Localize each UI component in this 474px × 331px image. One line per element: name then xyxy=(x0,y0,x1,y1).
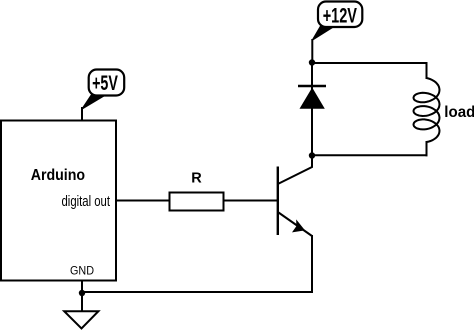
resistor R xyxy=(170,193,224,211)
wire right branch bottom xyxy=(426,141,428,156)
ground symbol xyxy=(64,311,98,328)
inductor L1 load xyxy=(414,78,440,142)
+5V supply flag xyxy=(82,70,125,110)
+12V supply flag xyxy=(312,2,362,41)
svg-text:R: R xyxy=(191,170,202,186)
svg-text:GND: GND xyxy=(70,266,94,278)
transistor Q1 xyxy=(278,156,312,237)
collector lead xyxy=(278,156,312,185)
base bar xyxy=(277,167,279,236)
wire +5V to Arduino xyxy=(81,107,83,121)
emitter arrow xyxy=(292,219,305,232)
node collector junction xyxy=(309,152,315,158)
wire resistor to base xyxy=(224,200,279,202)
wire digital out to resistor xyxy=(115,200,170,202)
junction ground node xyxy=(79,290,85,296)
svg-text:+5V: +5V xyxy=(92,72,118,95)
Arduino box U1 xyxy=(1,121,116,281)
svg-text:digital out: digital out xyxy=(62,193,111,210)
node top rail junction xyxy=(309,59,315,65)
svg-text:load: load xyxy=(444,104,474,121)
emitter lead xyxy=(278,212,312,236)
diode D1 branch wire xyxy=(311,63,313,156)
wire right branch top xyxy=(426,62,428,79)
diode D1 xyxy=(298,86,326,109)
wire bottom rail xyxy=(312,154,428,156)
svg-text:+12V: +12V xyxy=(323,5,357,28)
wire Arduino GND down xyxy=(81,281,83,312)
wire +12V down to rail xyxy=(311,39,313,63)
wire top rail xyxy=(312,62,428,64)
svg-text:Arduino: Arduino xyxy=(31,167,85,184)
wire emitter down and to ground rail xyxy=(82,235,312,292)
